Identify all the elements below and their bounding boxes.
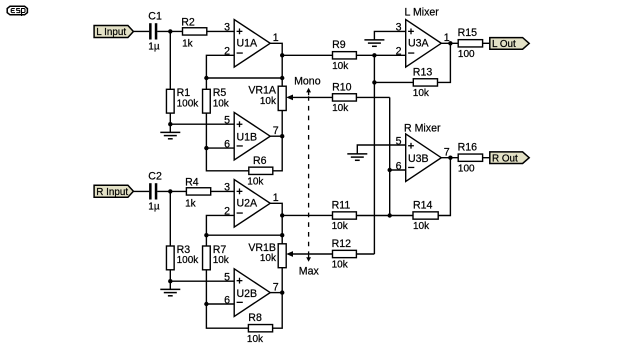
op-amp U3B [406,134,442,182]
resistor R6 [247,155,272,188]
wire [205,270,207,304]
svg-text:10k: 10k [260,96,277,107]
wire [356,54,405,56]
svg-text:R5: R5 [213,87,227,99]
svg-text:R13: R13 [413,66,433,78]
resistor R8 [247,312,273,345]
svg-text:VR1B: VR1B [248,242,276,254]
pin 3 label [224,182,230,194]
wire [270,135,282,137]
op-amp U3A [406,20,442,68]
pin 1 label [273,192,279,204]
svg-text:R15: R15 [458,27,478,39]
junction [280,134,284,138]
svg-text:10k: 10k [260,253,277,264]
wire [170,280,234,282]
pin 6 label [224,294,230,306]
pin 2 label [224,46,230,58]
junction [372,80,376,84]
svg-text:1µ: 1µ [148,41,160,52]
wire [273,293,283,329]
svg-text:10k: 10k [413,88,430,99]
resistor R12 [332,238,357,271]
resistor R9 [332,39,356,72]
svg-text:100: 100 [458,163,475,174]
capacitor C1 [148,11,162,53]
svg-text:10k: 10k [332,61,349,72]
junction [204,76,208,80]
capacitor C2 [148,171,162,213]
wire [441,157,458,159]
wire [282,214,332,216]
wire [206,303,234,305]
op-amp U2A [234,180,270,228]
node R Input tag [94,185,133,198]
svg-text:6: 6 [224,138,230,150]
svg-text:10k: 10k [247,177,264,188]
wire [282,54,332,56]
svg-text:3: 3 [224,22,230,34]
node L Input tag [94,26,133,39]
wire [374,81,413,83]
svg-text:100k: 100k [177,255,200,266]
wire [205,235,207,246]
svg-text:R Mixer: R Mixer [404,123,441,135]
wire [438,158,450,216]
svg-text:R9: R9 [332,39,346,51]
svg-text:L Mixer: L Mixer [405,6,440,18]
junction [388,168,392,172]
wire node B [389,97,391,215]
svg-text:R Input: R Input [96,187,128,198]
svg-text:R7: R7 [213,244,227,256]
svg-text:U2B: U2B [237,288,258,300]
pin 1 label [444,32,450,44]
svg-text:R10: R10 [332,81,352,93]
pin 5 label [224,115,230,127]
junction [168,189,172,193]
svg-text:1k: 1k [182,38,194,49]
svg-text:U1B: U1B [237,132,258,144]
svg-text:5: 5 [224,115,230,127]
svg-text:U2A: U2A [237,197,259,209]
pin 7 label [273,125,279,137]
wire [157,190,186,192]
svg-text:R3: R3 [177,244,191,256]
junction [280,53,284,57]
svg-text:C2: C2 [148,171,162,183]
svg-text:R12: R12 [332,238,352,250]
svg-text:100k: 100k [177,98,200,109]
wiper arrow VR1B [286,251,332,257]
wire [206,234,282,236]
junction [280,213,284,217]
wire [206,77,282,79]
wire [270,203,282,244]
node R Out tag [490,152,529,164]
wire [270,43,282,86]
wire [206,55,234,78]
resistor R2 [181,17,207,50]
svg-text:3: 3 [224,182,230,194]
svg-text:Mono: Mono [294,76,321,88]
wire [133,30,149,32]
svg-text:10k: 10k [332,221,349,232]
wire [281,111,283,137]
svg-text:7: 7 [273,125,279,137]
svg-text:R1: R1 [177,87,191,99]
potentiometer VR1A [248,85,286,111]
wire [206,147,234,149]
svg-text:6: 6 [224,294,230,306]
label R Mixer [404,123,441,135]
wire [390,169,406,171]
wire [270,292,282,294]
wire [157,30,182,32]
wire [390,215,413,217]
ground [160,124,180,139]
wire [356,96,389,98]
pin 7 label [444,147,450,159]
pin 3 label [396,22,402,34]
label Mono [294,76,321,88]
wire [206,215,234,235]
svg-text:R2: R2 [181,17,195,29]
svg-text:2: 2 [396,46,402,58]
svg-text:10k: 10k [332,103,349,114]
pin 5 label [224,272,230,284]
resistor R14 [413,199,438,232]
svg-text:R4: R4 [185,177,199,189]
ground [160,281,180,296]
svg-text:L Out: L Out [492,39,516,50]
svg-text:10k: 10k [413,221,430,232]
ground [364,40,384,46]
resistor R7 [203,244,230,270]
op-amp U1A [234,20,270,68]
gang arrow up [306,88,311,95]
junction [448,41,452,45]
pin 1 label [273,32,279,44]
resistor R10 [332,81,356,114]
wire [205,78,207,89]
resistor R5 [203,87,230,113]
junction [280,233,284,237]
svg-text:10k: 10k [213,255,230,266]
junction [372,53,376,57]
svg-text:100: 100 [458,49,475,60]
wire [169,31,171,89]
resistor R15 [458,27,483,60]
wire [207,30,234,32]
wire [438,43,451,82]
junction [280,290,284,294]
junction [280,76,284,80]
junction [168,29,172,33]
wire [169,270,171,281]
wire [281,268,283,293]
svg-text:VR1A: VR1A [248,85,277,97]
svg-text:R Out: R Out [492,153,518,164]
gang arrow down [306,255,311,262]
junction [204,146,208,150]
wire [211,190,235,192]
svg-text:10k: 10k [213,98,230,109]
svg-text:Max: Max [299,266,320,278]
wiper arrow VR1A [286,95,332,101]
wire [483,42,490,44]
pin 6 label [224,138,230,150]
junction [448,156,452,160]
wire [206,148,248,171]
wire [483,157,490,159]
wire [374,31,405,40]
wire [357,145,405,154]
resistor R3 [166,244,199,270]
junction [168,279,172,283]
svg-text:R11: R11 [332,199,351,211]
resistor R16 [458,142,483,175]
pin 3 label [224,22,230,34]
junction [204,302,208,306]
svg-text:U3B: U3B [408,153,429,165]
svg-text:U1A: U1A [237,37,259,49]
svg-text:R14: R14 [413,199,433,211]
svg-text:1µ: 1µ [148,201,160,212]
resistor R1 [166,87,199,113]
pin 7 label [273,282,279,294]
wire [356,253,374,255]
svg-text:R16: R16 [458,142,478,154]
svg-text:7: 7 [273,282,279,294]
wire [205,113,207,148]
svg-text:1: 1 [273,32,279,44]
svg-text:R6: R6 [253,155,267,167]
svg-text:R8: R8 [248,312,262,324]
resistor R4 [185,177,211,210]
pin 2 label [224,206,230,218]
resistor R11 [332,199,357,232]
wire [169,191,171,246]
svg-text:1: 1 [273,192,279,204]
wire [273,136,282,171]
pin 2 label [396,46,402,58]
svg-text:U3A: U3A [408,37,430,49]
wire node A [373,55,375,254]
resistor R13 [413,66,438,99]
svg-text:C1: C1 [148,11,162,23]
junction [204,233,208,237]
ground [347,154,367,160]
junction [168,122,172,126]
wire [441,42,458,44]
label Max [299,266,320,278]
wire [170,123,234,125]
svg-text:5: 5 [224,272,230,284]
ESP logo [7,6,27,16]
pin 6 label [396,160,402,172]
svg-text:1k: 1k [185,198,197,209]
node L Out tag [490,38,529,50]
pin 5 label [396,135,402,147]
wire [169,113,171,124]
svg-text:L Input: L Input [96,27,126,38]
potentiometer VR1B [248,242,286,268]
svg-text:10k: 10k [247,334,264,345]
op-amp U2B [234,269,270,317]
svg-text:10k: 10k [332,260,349,271]
wire [133,190,149,192]
gang dashed line [308,96,310,254]
junction [388,213,392,217]
wire [206,304,248,328]
wire [356,215,389,217]
op-amp U1B [234,112,270,160]
label L Mixer [405,6,440,18]
